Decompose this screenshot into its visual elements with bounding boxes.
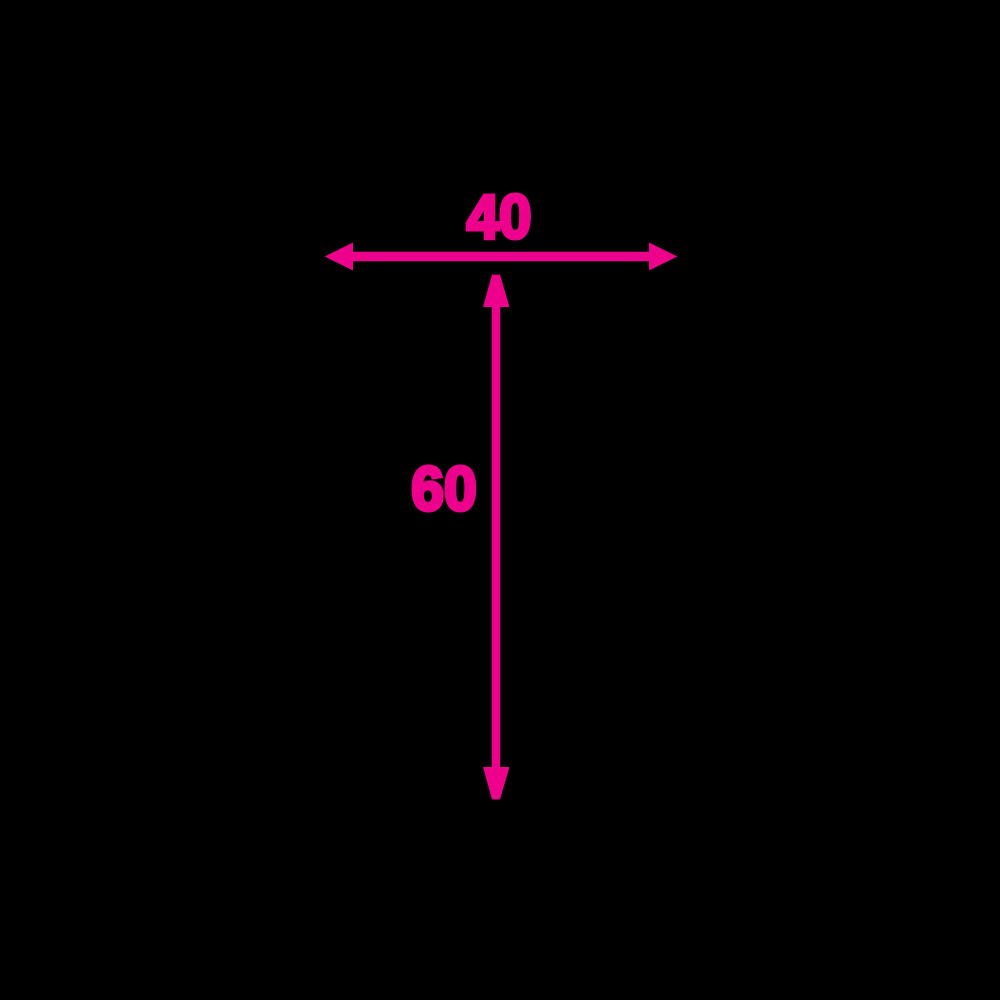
svg-text:60: 60 bbox=[411, 454, 477, 524]
node right arrowhead bbox=[649, 243, 677, 271]
wire vertical dimension arrow shaft bbox=[492, 300, 501, 774]
node left arrowhead bbox=[325, 243, 353, 271]
svg-text:40: 40 bbox=[467, 182, 532, 251]
wire horizontal dimension arrow shaft bbox=[348, 252, 652, 262]
node bottom arrowhead bbox=[483, 767, 510, 799]
node top arrowhead bbox=[483, 275, 510, 307]
